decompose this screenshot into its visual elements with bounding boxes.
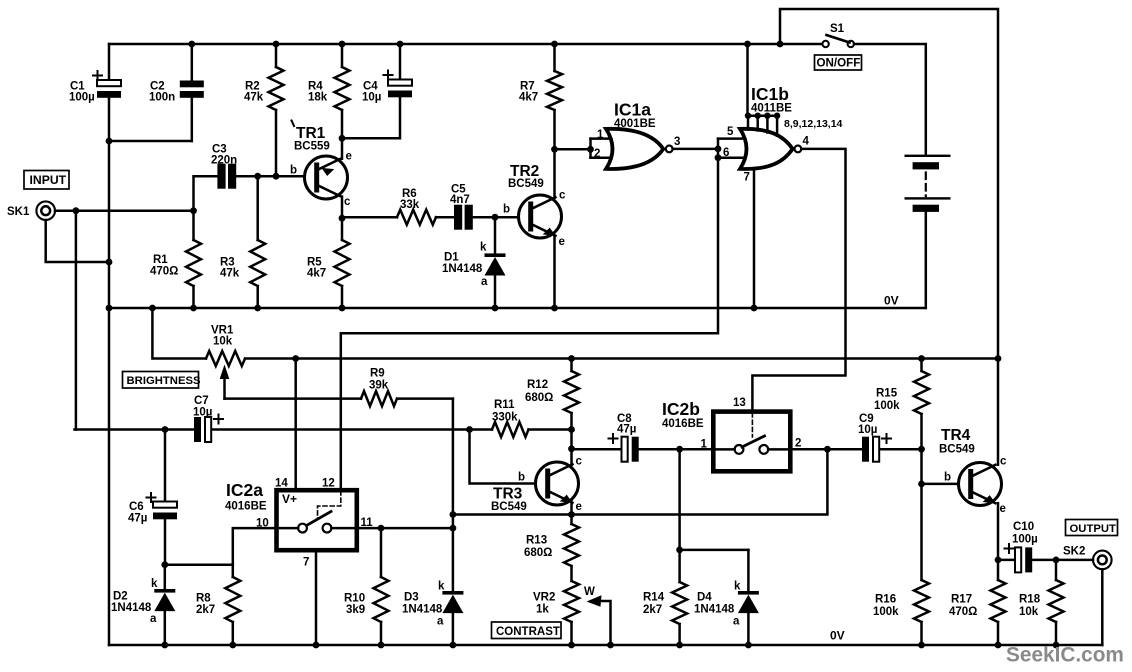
node: C8 tap	[568, 445, 575, 452]
svg-text:10µ: 10µ	[362, 92, 381, 104]
svg-text:D3: D3	[404, 592, 419, 604]
capacitor C7 10µ	[194, 417, 201, 442]
node: R18 tap	[1053, 557, 1060, 564]
svg-text:IC2b: IC2b	[662, 399, 700, 419]
resistor R9 39k	[225, 397, 362, 400]
resistor R17 470Ω	[997, 560, 1000, 580]
junctions on bottom rail	[161, 642, 168, 649]
svg-text:R17: R17	[951, 594, 972, 606]
diode D4 1N4148	[747, 550, 750, 591]
wire: C5 to TR2 base	[473, 216, 519, 219]
label box INPUT	[24, 171, 69, 190]
svg-text:4k7: 4k7	[519, 92, 538, 104]
svg-text:ON/OFF: ON/OFF	[817, 57, 861, 70]
IC chip IC2a 4016BE (analog switch)	[277, 490, 357, 550]
svg-text:680Ω: 680Ω	[525, 392, 553, 404]
svg-text:b: b	[290, 165, 297, 177]
svg-text:k: k	[480, 242, 487, 254]
label box OUTPUT	[1066, 520, 1118, 536]
svg-text:e: e	[1000, 503, 1006, 515]
resistor R8 2k7	[232, 565, 235, 577]
wire: top-right loop to battery/right side	[780, 9, 998, 359]
svg-text:k: k	[734, 581, 741, 593]
wire: input feed down to C7 line	[75, 211, 78, 430]
svg-text:10µ: 10µ	[193, 407, 212, 419]
capacitor C8 47µ	[622, 437, 628, 462]
svg-text:100n: 100n	[149, 92, 175, 104]
svg-text:0V: 0V	[830, 629, 845, 643]
node: C2 top rail junction	[188, 41, 195, 48]
wire: input to C7	[75, 428, 195, 431]
wire: C8 to IC2b pin1	[639, 448, 711, 451]
svg-text:4n7: 4n7	[450, 194, 470, 206]
resistor R15 100k	[920, 359, 923, 372]
op-gate IC1b 4011BE (NAND)	[740, 129, 793, 169]
svg-text:IC1b: IC1b	[751, 84, 789, 104]
svg-text:680Ω: 680Ω	[524, 547, 552, 559]
svg-text:3: 3	[674, 136, 680, 148]
svg-text:R8: R8	[196, 593, 211, 605]
svg-text:33k: 33k	[400, 199, 420, 211]
svg-text:e: e	[346, 151, 352, 163]
svg-text:c: c	[1000, 456, 1007, 468]
wire: C1 top lead	[108, 44, 111, 80]
wire: R9 down to D3	[452, 399, 455, 591]
wire: C9 to R15/TR4 base node	[880, 448, 921, 451]
node: top-right rail junction	[777, 41, 784, 48]
svg-text:470Ω: 470Ω	[949, 606, 977, 618]
node: emitter bus tap	[450, 511, 457, 518]
wire: C2 bottom lead	[191, 98, 194, 141]
svg-text:4k7: 4k7	[307, 268, 326, 280]
svg-text:SK1: SK1	[7, 206, 30, 218]
wire: input signal line	[55, 209, 194, 212]
wire: R14 node to D4	[680, 549, 749, 552]
svg-text:3k9: 3k9	[346, 604, 365, 616]
VR1 wiper arrow	[220, 365, 230, 399]
svg-text:10µ: 10µ	[858, 424, 877, 436]
node: C1 bottom junction	[106, 138, 113, 145]
wire: TR2 collector to IC1a inputs	[555, 148, 591, 151]
IC chip IC2b 4016BE (analog switch)	[713, 412, 790, 472]
connector SK2	[1093, 551, 1112, 570]
svg-text:R18: R18	[1019, 594, 1041, 606]
wire: TR3 collector lead	[570, 449, 573, 465]
wire: drop to TR3 base	[470, 430, 536, 484]
wire: top supply rail	[109, 43, 780, 46]
svg-text:47µ: 47µ	[128, 513, 147, 525]
VR2 wiper arrow	[587, 595, 611, 645]
transistor TR1 BC559	[305, 156, 348, 199]
svg-text:1N4148: 1N4148	[694, 604, 735, 616]
wire: C10 to SK2	[1032, 559, 1093, 562]
label box CONTRAST	[492, 622, 562, 639]
wire: V+ to IC2a pin14	[294, 359, 297, 489]
svg-text:a: a	[437, 616, 444, 628]
svg-text:c: c	[344, 196, 351, 208]
capacitor C6 47µ	[153, 502, 177, 508]
label box ON/OFF	[815, 55, 862, 70]
svg-text:D4: D4	[697, 592, 712, 604]
switch S1	[780, 35, 926, 155]
svg-text:b: b	[518, 472, 525, 484]
node: C6 tap	[162, 426, 169, 433]
wire: C7 to R11/TR3 base	[212, 428, 469, 431]
wire: C3 left lead	[194, 176, 218, 211]
node: IC1a input tap	[551, 146, 558, 153]
wire: down to TR4 base node	[920, 449, 923, 484]
svg-text:18k: 18k	[308, 92, 328, 104]
svg-text:4: 4	[803, 136, 810, 148]
wire: C3 to TR1 base	[236, 175, 304, 178]
wire: IC2a pin7 to 0V	[315, 551, 318, 646]
capacitor C9 10µ	[862, 437, 869, 462]
svg-text:7: 7	[744, 172, 750, 184]
wire: IC2a pin10 to R8	[233, 528, 274, 565]
IC1b input stubs (pins 5-6)	[718, 137, 746, 140]
svg-text:100µ: 100µ	[69, 92, 95, 104]
svg-text:a: a	[481, 276, 488, 288]
svg-text:R14: R14	[643, 592, 665, 604]
node: C9/R15 junction	[918, 446, 925, 453]
svg-text:INPUT: INPUT	[30, 173, 67, 187]
svg-text:1: 1	[701, 439, 708, 451]
svg-text:BC549: BC549	[508, 178, 544, 190]
junctions on pin11 bus	[378, 525, 385, 532]
wire: to C10	[998, 559, 1015, 562]
svg-text:5: 5	[727, 126, 734, 138]
junctions on 0V rail	[106, 305, 113, 312]
node: C4 junctions	[397, 41, 404, 48]
svg-text:39k: 39k	[369, 380, 389, 392]
wire: TR1 collector lead	[341, 197, 344, 219]
wire: R7 to TR2 collector	[553, 149, 556, 198]
potentiometer VR2 1k	[564, 581, 579, 622]
svg-text:V+: V+	[282, 492, 297, 506]
svg-text:4001BE: 4001BE	[614, 118, 656, 130]
wire: SK1 shield to 0V	[46, 220, 109, 262]
node: R11 left / base drop	[466, 426, 473, 433]
resistor R13 680Ω	[570, 515, 573, 525]
wire: C6 node to R8/pin10	[165, 563, 233, 566]
node: D1 tap	[492, 214, 499, 221]
svg-text:k: k	[151, 578, 158, 590]
wire: SK2 shield to 0V	[1101, 569, 1104, 645]
svg-text:7: 7	[303, 557, 309, 569]
resistor R4 18k	[341, 44, 344, 67]
wire: to C8	[572, 448, 622, 451]
svg-text:c: c	[576, 456, 583, 468]
svg-text:14: 14	[275, 478, 288, 490]
resistor R10 3k9	[380, 528, 383, 577]
transistor TR4 BC549	[959, 463, 1002, 508]
wire: C6 bottom lead	[164, 519, 167, 564]
resistor R18 10k	[1055, 560, 1058, 580]
svg-text:CONTRAST: CONTRAST	[496, 626, 560, 638]
svg-text:C6: C6	[129, 501, 144, 513]
svg-text:4016BE: 4016BE	[225, 501, 267, 513]
wire: IC1b input vertical + down to IC2a pin12 net	[341, 139, 718, 488]
diode D3 body	[442, 591, 463, 595]
svg-text:2k7: 2k7	[643, 604, 662, 616]
battery B1	[905, 155, 951, 308]
svg-text:BC559: BC559	[294, 141, 330, 153]
connector SK1	[36, 201, 55, 220]
svg-text:R10: R10	[344, 593, 365, 605]
resistor R3 47k	[256, 176, 259, 240]
node: C6/R8/D2 junction	[161, 561, 168, 568]
svg-text:R15: R15	[876, 388, 898, 400]
node: shield-left vertical junction	[106, 259, 113, 266]
svg-text:IC2a: IC2a	[226, 480, 263, 500]
node: TR4 base junction	[918, 481, 925, 488]
label box BRIGHTNESS	[123, 372, 199, 389]
svg-text:c: c	[559, 190, 566, 202]
wire: TR4 collector to V+ rail	[997, 359, 1000, 465]
svg-text:100k: 100k	[874, 400, 900, 412]
svg-text:0V: 0V	[884, 294, 899, 308]
resistor R6 33k	[342, 216, 397, 219]
junctions on V+ rail	[292, 355, 299, 362]
wire: left 0V vertical	[108, 141, 111, 645]
svg-text:TR1: TR1	[296, 125, 326, 142]
wire: V+ distribution rail (VR1-R12-R15)	[245, 357, 998, 360]
wire: TR2 emitter to 0V	[553, 236, 556, 309]
transistor TR2 BC549	[519, 195, 562, 240]
svg-text:470Ω: 470Ω	[150, 266, 178, 278]
svg-text:a: a	[150, 613, 157, 625]
svg-text:8,9,12,13,14: 8,9,12,13,14	[784, 118, 843, 130]
wire: IC1b output pin4 to IC2b pin13	[752, 149, 845, 410]
svg-text:e: e	[559, 236, 565, 248]
svg-text:IC1a: IC1a	[614, 100, 651, 120]
junctions on TR1 base line	[254, 173, 261, 180]
svg-text:10k: 10k	[213, 336, 233, 348]
transistor TR3 BC549	[536, 462, 579, 507]
svg-text:6: 6	[723, 147, 729, 159]
wire: TR4 emitter down	[997, 503, 1000, 560]
potentiometer VR1 10k	[152, 308, 245, 366]
svg-text:13: 13	[733, 397, 746, 409]
svg-text:47k: 47k	[244, 92, 264, 104]
svg-text:e: e	[576, 501, 582, 513]
wire: TR3 emitter lead	[570, 502, 573, 515]
svg-text:S1: S1	[830, 23, 845, 35]
svg-text:R13: R13	[526, 535, 547, 547]
svg-text:TR3: TR3	[493, 486, 523, 503]
diode D2 1N4148	[164, 565, 167, 589]
capacitor C10 100µ	[1015, 547, 1021, 572]
node: R14 tap	[676, 446, 683, 453]
svg-text:C10: C10	[1013, 521, 1034, 533]
capacitor C2 100n	[180, 81, 204, 88]
svg-text:1N4148: 1N4148	[111, 602, 152, 614]
svg-text:D1: D1	[444, 252, 459, 264]
resistor R1 470Ω	[192, 211, 195, 240]
svg-text:b: b	[944, 472, 951, 484]
wire: IC1a output pin3 to IC1b	[673, 148, 718, 151]
IC1b unused input pins 8,9,12,13,14 tied to supply	[745, 44, 781, 136]
svg-text:330k: 330k	[492, 412, 518, 424]
svg-text:1k: 1k	[536, 604, 549, 616]
svg-text:1N4148: 1N4148	[442, 263, 483, 275]
wire: C2 top lead	[191, 44, 194, 81]
svg-text:47k: 47k	[220, 268, 240, 280]
svg-text:100k: 100k	[873, 606, 899, 618]
wire: C4 top lead	[399, 44, 402, 80]
svg-text:BC549: BC549	[939, 444, 975, 456]
wire: C1-C2 bottom link	[109, 140, 192, 143]
svg-text:R16: R16	[875, 594, 896, 606]
resistor R12 680Ω	[564, 371, 579, 413]
diode D1 1N4148	[494, 217, 497, 253]
svg-text:100µ: 100µ	[1012, 534, 1038, 546]
wire: C6 top lead	[164, 430, 167, 502]
svg-text:1N4148: 1N4148	[402, 604, 443, 616]
svg-text:R9: R9	[370, 368, 385, 380]
svg-text:C7: C7	[194, 395, 209, 407]
svg-text:SeekIC.com: SeekIC.com	[1006, 644, 1124, 667]
svg-text:2: 2	[594, 148, 600, 160]
svg-text:k: k	[438, 581, 445, 593]
svg-text:BRIGHTNESS: BRIGHTNESS	[127, 375, 202, 387]
diode D1 body	[485, 253, 506, 257]
svg-text:BC549: BC549	[491, 501, 527, 513]
svg-text:220n: 220n	[211, 155, 237, 167]
wire: IC2b pin2 to C9	[790, 448, 862, 451]
wire: emitter bus to C9 node	[453, 449, 828, 514]
diode D2 body	[154, 589, 175, 593]
wire: IC2a pin11 bus	[359, 527, 453, 530]
svg-text:TR4: TR4	[941, 427, 971, 444]
svg-text:47µ: 47µ	[617, 424, 636, 436]
wire: IC1b pin7 to 0V	[753, 169, 756, 308]
resistor R7 4k7	[553, 44, 556, 71]
wire: C1 bottom lead	[108, 98, 111, 141]
capacitor C5 4n7	[454, 205, 462, 230]
node: emitter/C10/R17 junction	[995, 557, 1002, 564]
junctions on input line	[73, 207, 80, 214]
svg-text:b: b	[503, 204, 510, 216]
wire: R12 to collector/C8 node	[570, 430, 573, 449]
svg-text:D2: D2	[113, 591, 128, 603]
resistor R5 4k7	[341, 218, 344, 240]
capacitor C4 10µ	[388, 80, 412, 86]
wire: C4 bottom to TR1 emitter node	[342, 97, 400, 138]
wire: 0V rail (top section)	[109, 307, 926, 310]
capacitor C3 220n	[217, 164, 225, 189]
IC1a input tie bracket (pins 1-2)	[589, 139, 592, 158]
svg-text:R12: R12	[527, 379, 548, 391]
svg-text:a: a	[733, 616, 740, 628]
junctions on emitter bus	[568, 511, 575, 518]
resistor R16 100k	[920, 484, 923, 580]
svg-text:SK2: SK2	[1063, 546, 1085, 558]
wire: TR4 base	[922, 483, 959, 486]
svg-text:VR2: VR2	[533, 592, 555, 604]
svg-text:10k: 10k	[1019, 606, 1039, 618]
svg-text:1: 1	[597, 129, 604, 141]
resistor R11 330k	[492, 422, 529, 437]
op-gate IC1a 4001BE (NOR)	[606, 129, 663, 169]
svg-text:R1: R1	[153, 254, 168, 266]
wire: TR1 emitter lead	[341, 138, 344, 159]
svg-text:OUTPUT: OUTPUT	[1070, 523, 1117, 535]
svg-text:4016BE: 4016BE	[662, 418, 704, 430]
svg-text:2: 2	[795, 438, 801, 450]
svg-text:W: W	[584, 586, 595, 598]
resistor R2 47k	[275, 44, 278, 67]
capacitor C1 100µ	[97, 80, 121, 86]
diode D4 body	[738, 591, 759, 595]
wire: bottom 0V rail	[109, 644, 1102, 647]
svg-text:R11: R11	[494, 399, 515, 411]
resistor R14 2k7	[678, 449, 681, 550]
svg-text:12: 12	[322, 478, 335, 490]
svg-text:2k7: 2k7	[196, 604, 215, 616]
